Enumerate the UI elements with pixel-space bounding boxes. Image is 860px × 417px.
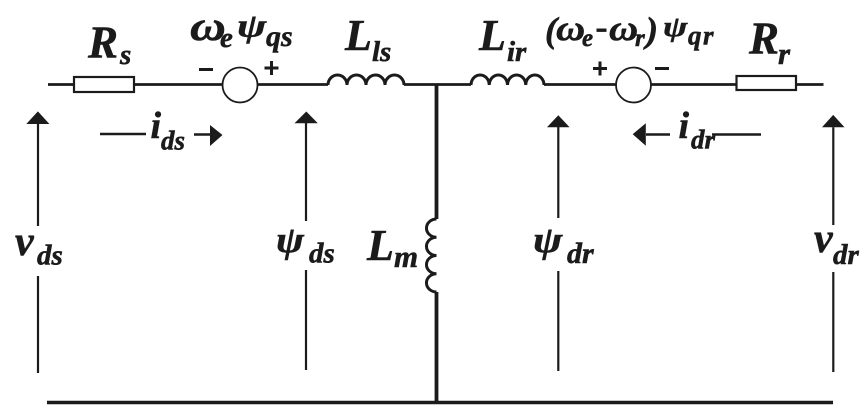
svg-text:L: L [478,11,506,60]
svg-text:ψ: ψ [663,12,689,43]
svg-text:dr: dr [691,125,716,155]
svg-text:v: v [814,216,834,262]
svg-text:ω: ω [556,9,585,49]
svg-text:e: e [582,25,593,52]
svg-text:dr: dr [567,237,594,270]
svg-text:ψ: ψ [276,219,305,260]
svg-text:ds: ds [37,240,63,272]
svg-text:qs: qs [266,20,293,53]
svg-text:ω: ω [609,9,638,49]
svg-text:ls: ls [372,36,391,68]
svg-text:i: i [151,105,162,147]
svg-text:s: s [119,39,131,71]
svg-text:ψ: ψ [533,219,563,260]
svg-text:m: m [394,239,418,274]
svg-text:qr: qr [688,21,715,51]
svg-text:R: R [748,14,779,64]
svg-text:e: e [220,22,233,54]
svg-text:L: L [366,221,394,270]
svg-text:ds: ds [161,126,185,156]
svg-text:ψ: ψ [237,8,268,44]
svg-text:L: L [344,11,372,60]
svg-text:dr: dr [833,239,860,271]
svg-text:ir: ir [507,36,527,68]
svg-text:v: v [15,219,35,265]
svg-text:ds: ds [309,238,335,270]
svg-text:r: r [635,25,645,52]
svg-text:r: r [778,36,791,71]
svg-text:R: R [87,18,118,68]
svg-text:): ) [643,10,658,50]
svg-text:i: i [679,105,690,147]
